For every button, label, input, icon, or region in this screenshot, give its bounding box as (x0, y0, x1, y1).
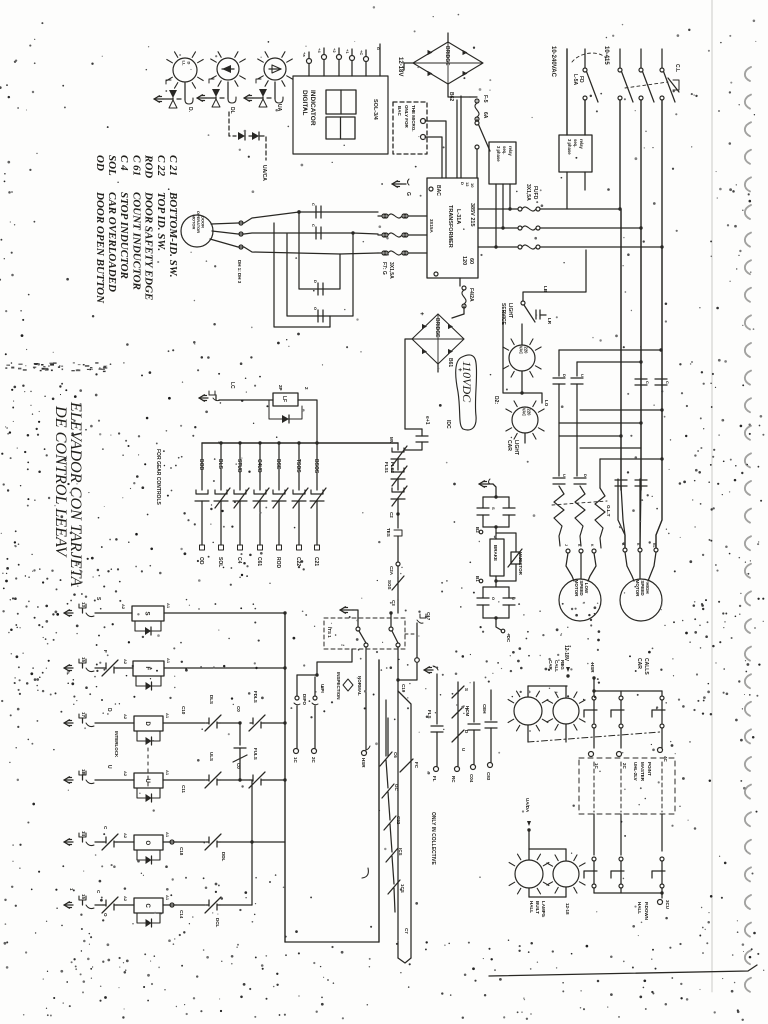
phase relay B wires (566, 172, 568, 209)
interlock dashes (147, 748, 149, 786)
door operator motor (181, 215, 213, 247)
svg-text:S: S (464, 688, 469, 691)
svg-text:O: O (491, 597, 496, 600)
svg-text:HCM: HCM (465, 706, 470, 716)
svg-text:C04: C04 (469, 774, 474, 783)
wires above transformer (456, 100, 458, 178)
svg-text:1B: 1B (81, 769, 86, 776)
svg-text:DOOR OPEN BUTTON: DOOR OPEN BUTTON (94, 191, 106, 304)
svg-text:FOR GEAR CONTROLS: FOR GEAR CONTROLS (155, 449, 161, 505)
svg-text:B61: B61 (447, 358, 453, 367)
HSR wire (593, 678, 595, 691)
rung3-4 link cap (239, 723, 241, 745)
right tall vertical (378, 660, 380, 942)
svg-text:3 phase: 3 phase (567, 139, 572, 155)
svg-text:SOL: SOL (217, 557, 223, 567)
brake top caps (477, 507, 489, 509)
svg-text:F: F (144, 667, 150, 671)
svg-text:385V 215: 385V 215 (469, 203, 475, 227)
brake bottom caps (477, 597, 489, 599)
svg-text:e+1: e+1 (424, 416, 430, 425)
svg-text:HALL: HALL (529, 901, 534, 913)
rung1 coil S (95, 612, 132, 614)
svg-text:LAMPS: LAMPS (541, 901, 546, 917)
svg-text:C6: C6 (393, 752, 398, 758)
svg-text:BSOS: BSOS (313, 459, 319, 474)
svg-text:L-5A: L-5A (572, 74, 578, 86)
master point verticals (593, 762, 595, 812)
phase sequence relay B box (559, 135, 592, 172)
hall row2 bottom bus (594, 892, 662, 894)
svg-text:120: 120 (461, 256, 467, 265)
svg-text:D: D (106, 708, 112, 712)
svg-text:MOTOR: MOTOR (574, 580, 579, 597)
svg-text:BAC: BAC (397, 106, 402, 116)
long vertical R3 (661, 247, 663, 459)
svg-text:C22: C22 (396, 816, 401, 825)
svg-text:DSE: DSE (275, 459, 281, 470)
left vertical bus (284, 613, 286, 942)
svg-text:HSR: HSR (590, 663, 595, 673)
car lamp bottom wires (527, 725, 529, 742)
high speed motor (620, 579, 662, 621)
master point dashed box (579, 758, 675, 814)
dashed wire lamp aux (229, 112, 236, 136)
svg-text:C7: C7 (404, 928, 409, 934)
rung5 diode (137, 850, 160, 860)
rung2 diode (136, 676, 161, 686)
service light switch (521, 301, 525, 305)
cap jog top2 (577, 361, 641, 363)
ground G at transformer (392, 183, 401, 185)
cap row1 to row2 wires (558, 384, 560, 476)
ITS switch 1 (356, 627, 360, 631)
svg-text:C 21: C 21 (167, 155, 179, 176)
car call buttons row1 (593, 691, 595, 696)
svg-text:S: S (144, 612, 150, 616)
relay A drop wires (495, 184, 497, 247)
svg-text:BAC: BAC (435, 185, 441, 196)
svg-text:C: C (665, 381, 670, 384)
bridge rectifier B62 (413, 42, 483, 84)
car call pigtails 1C 2C 4C (589, 752, 594, 757)
3-phase wire W (478, 246, 518, 248)
FLS col2 (457, 682, 459, 766)
svg-text:relay: relay (508, 146, 513, 156)
svg-text:INDICATOR: INDICATOR (309, 90, 316, 126)
svg-text:MV: MV (389, 437, 394, 444)
svg-text:CAR: CAR (506, 440, 512, 451)
svg-text:DOOR SAFETY EDGE: DOOR SAFETY EDGE (143, 191, 155, 300)
svg-text:U: U (511, 597, 516, 600)
svg-text:TRANSFORMER: TRANSFORMER (447, 205, 453, 248)
svg-text:1C: 1C (293, 757, 298, 764)
svg-text:C2A: C2A (389, 566, 394, 576)
svg-text:13: 13 (81, 602, 86, 608)
terminal +DC (496, 618, 501, 630)
svg-text:F: F (103, 650, 108, 653)
svg-text:ULS: ULS (209, 752, 214, 761)
svg-text:2C: 2C (311, 757, 316, 764)
svg-text:C4: C4 (236, 557, 242, 564)
rung6 diode (137, 913, 160, 923)
svg-text:LC: LC (229, 382, 235, 389)
main switch FD (584, 49, 586, 68)
dark scan streak left (18, 368, 21, 370)
rung5 contact C (103, 841, 106, 843)
service lamp 220VAC (509, 345, 535, 371)
spiral binding holes column (745, 67, 751, 81)
svg-text:3 phase: 3 phase (496, 146, 501, 162)
svg-text:U: U (580, 374, 585, 377)
svg-text:BUILT: BUILT (535, 901, 540, 914)
contact drops DOB..BSOS (201, 443, 203, 490)
svg-text:10-240VAC: 10-240VAC (550, 46, 556, 78)
svg-text:D.: D. (187, 107, 193, 113)
svg-text:F7: G: F7: G (381, 262, 387, 275)
svg-text:G: G (405, 192, 411, 196)
svg-text:FULS: FULS (253, 748, 258, 760)
wire LF to bus (298, 400, 317, 443)
svg-text:A2: A2 (121, 604, 126, 610)
FLS col4 (490, 690, 492, 720)
motor loop caps (317, 283, 319, 295)
svg-text:L-31A: L-31A (455, 209, 461, 224)
svg-text:12: 12 (465, 182, 470, 187)
svg-text:P.DOWN: P.DOWN (644, 902, 649, 920)
triac/ground for lamp DLL (184, 83, 186, 100)
main switch T (661, 49, 663, 68)
svg-text:4C: 4C (663, 756, 668, 763)
svg-text:VARISTOR: VARISTOR (518, 552, 523, 576)
lamp UA with right arrow (264, 58, 286, 80)
svg-text:DL: DL (229, 107, 235, 114)
svg-text:NORMAL: NORMAL (357, 676, 362, 696)
svg-text:BRAKE: BRAKE (493, 545, 498, 561)
motor loop 3 (274, 223, 330, 327)
svg-text:CEH: CEH (482, 704, 487, 714)
motor wire row 3 (210, 239, 378, 254)
terminal B1 (479, 579, 483, 583)
rung2 wire to bus (164, 667, 285, 669)
bottom page edge line (489, 965, 757, 976)
motor2 wires from caps (621, 486, 625, 548)
svg-text:FLS2: FLS2 (390, 462, 395, 473)
svg-text:10-415: 10-415 (603, 46, 609, 65)
svg-text:A1: A1 (165, 770, 170, 776)
svg-text:17: 17 (81, 712, 86, 718)
svg-text:2C: 2C (622, 763, 627, 770)
svg-text:UA/CA: UA/CA (261, 165, 267, 181)
car call lamps (514, 697, 542, 725)
svg-text:B1: B1 (475, 576, 480, 582)
svg-text:1C: 1C (594, 763, 599, 770)
svg-text:3X15A: 3X15A (429, 219, 434, 234)
transformer corner terminals (429, 187, 433, 191)
svg-text:A2: A2 (123, 714, 128, 720)
svg-text:12-18: 12-18 (565, 903, 570, 915)
svg-text:VAC: VAC (522, 408, 527, 417)
svg-text:VAC: VAC (519, 346, 524, 355)
scan speckle noise (248, 156, 250, 158)
C3 junction (389, 611, 392, 614)
svg-text:CAR: CAR (636, 658, 642, 669)
svg-text:C83: C83 (486, 772, 491, 781)
UIPI DIPO switches (297, 674, 317, 676)
rung1 wire to bus (164, 612, 285, 614)
svg-text:HSR: HSR (361, 758, 366, 768)
svg-text:C0: C0 (236, 763, 241, 769)
svg-text:12-18V: 12-18V (397, 57, 403, 76)
svg-text:D: D (144, 722, 150, 727)
digital indicator box (293, 76, 388, 154)
seven-segment digit 2 (326, 117, 355, 139)
svg-text:3X1,5A: 3X1,5A (388, 262, 394, 279)
motor loop 2 (287, 233, 353, 316)
svg-text:HALL: HALL (637, 902, 642, 914)
cap at e+1 (416, 435, 428, 437)
svg-text:U: U (144, 779, 150, 783)
dashed collective link (528, 732, 660, 742)
rung5-6 join (251, 780, 253, 905)
tall line a (398, 691, 411, 958)
svg-text:U: U (461, 748, 466, 751)
main switch S (640, 49, 642, 68)
brake wire mid (495, 527, 497, 539)
svg-text:A2: A2 (123, 833, 128, 839)
svg-text:seq.: seq. (573, 139, 578, 147)
svg-text:+2: +2 (332, 48, 337, 53)
dashed box ONLY FOR THE MICRO (393, 102, 427, 154)
car call bus (594, 690, 662, 692)
svg-text:O: O (144, 841, 150, 846)
3-phase wire U (478, 208, 518, 210)
svg-text:ITS 1: ITS 1 (327, 627, 332, 638)
svg-text:FDLS: FDLS (253, 691, 258, 703)
triac/ground for lamp DL (227, 82, 229, 99)
seven-segment digit 1 (326, 90, 356, 114)
svg-text:ONLY IN COLLECTIVE: ONLY IN COLLECTIVE (430, 812, 436, 865)
svg-text:seq.: seq. (502, 146, 507, 154)
rung6 contact O (103, 904, 106, 906)
svg-text:UA/DA: UA/DA (525, 798, 530, 813)
rung3 coil D (95, 722, 134, 724)
svg-text:LR: LR (547, 318, 552, 325)
svg-text:C.L: C.L (674, 64, 680, 72)
svg-text:C4UD: C4UD (256, 459, 262, 473)
svg-text:A2: A2 (123, 771, 128, 777)
rung3 diode (137, 731, 160, 741)
rung4 diode (137, 788, 160, 798)
svg-text:FC: FC (414, 762, 419, 769)
svg-text:C2: C2 (389, 512, 394, 518)
bus to MV column (397, 443, 399, 450)
svg-text:C 22: C 22 (155, 155, 167, 177)
svg-text:C21: C21 (313, 557, 319, 566)
main control bus (202, 442, 398, 444)
FLS col3 (473, 682, 475, 722)
rung4 C11 ULS (163, 779, 205, 781)
svg-text:DLS: DLS (217, 459, 223, 470)
svg-text:O: O (103, 913, 108, 917)
svg-text:6A: 6A (482, 112, 488, 119)
svg-text:+: + (418, 312, 424, 316)
long vertical R2 (640, 228, 642, 490)
svg-text:C22: C22 (295, 557, 301, 566)
relay LF 2P (273, 393, 298, 406)
triac/ground for lamp UA (274, 82, 276, 99)
svg-text:C: C (311, 203, 316, 206)
rung5 coil D (95, 841, 103, 843)
svg-text:DOB: DOB (198, 459, 204, 471)
svg-text:CAR OVERLOADED: CAR OVERLOADED (106, 192, 118, 292)
rung6 coil C (95, 904, 103, 906)
car call buttons row1 bottom (592, 724, 596, 728)
svg-text:C: C (144, 904, 150, 909)
fuse bank 3X15A (382, 214, 386, 218)
svg-text:STOP INDUCTOR: STOP INDUCTOR (118, 192, 130, 279)
inspection diamond (343, 679, 353, 691)
svg-text:A1: A1 (165, 895, 170, 901)
svg-text:D: D (460, 182, 465, 185)
indicator wire G (379, 44, 381, 76)
svg-text:D2:: D2: (493, 396, 499, 404)
svg-text:+4: +4 (317, 48, 322, 53)
svg-text:MOTOR: MOTOR (191, 215, 196, 230)
svg-text:CALL: CALL (554, 660, 559, 672)
svg-text:DDL: DDL (221, 852, 226, 861)
dashed switch linkage (625, 82, 668, 88)
handwritten 110VDC oval (456, 355, 477, 430)
svg-text:RC: RC (451, 776, 456, 783)
svg-text:15: 15 (81, 894, 86, 900)
brake block ground (479, 483, 488, 485)
low speed motor (559, 579, 601, 621)
svg-text:A2: A2 (123, 659, 128, 665)
svg-text:BRIDGE: BRIDGE (434, 318, 440, 338)
svg-text:C 4: C 4 (118, 155, 130, 171)
svg-text:14: 14 (81, 831, 86, 837)
svg-text:DH 1: DH 3: DH 1: DH 3 (237, 260, 242, 284)
svg-text:LIGHT: LIGHT (507, 303, 513, 318)
micro wires to transformer (425, 121, 446, 178)
svg-text:TOP ID. SW.: TOP ID. SW. (155, 192, 167, 251)
rung5 pushbutton (64, 841, 73, 843)
svg-text:A1: A1 (166, 658, 171, 664)
brake coil box (490, 539, 504, 576)
rung6 pushbutton (64, 904, 73, 906)
svg-text:SOL-3/4: SOL-3/4 (372, 99, 378, 121)
LF diode loop (269, 400, 302, 419)
svg-text:C19: C19 (401, 684, 406, 693)
rung6 C14 DCL (163, 904, 176, 906)
switch below F-5 (476, 119, 478, 121)
capacitor DH row1 (315, 206, 317, 218)
rung3 C10 DLS (163, 722, 205, 724)
rung4 pushbutton (64, 779, 73, 781)
svg-text:+DC: +DC (506, 633, 511, 643)
dashed wire to UA/CA (260, 136, 266, 160)
svg-text:+1: +1 (345, 49, 350, 54)
svg-text:U: U (106, 765, 112, 769)
svg-text:DIGITAL: DIGITAL (301, 90, 308, 116)
motor wire row 2 (212, 231, 378, 234)
svg-text:FL: FL (432, 776, 437, 782)
svg-text:F-5: F-5 (482, 95, 488, 103)
service lamp wires (521, 324, 523, 345)
hall lamp bottoms (528, 888, 530, 897)
phase sequence relay A box (489, 142, 516, 184)
svg-text:15: 15 (81, 657, 86, 663)
car light lamp 220VAC (512, 407, 538, 433)
svg-text:C61: C61 (256, 557, 262, 566)
pigtail 3CU (661, 893, 663, 898)
motor2 wires from caps (618, 479, 625, 548)
handwritten J mark (362, 868, 368, 878)
svg-text:IDC: IDC (445, 420, 451, 429)
motor2 terminals (623, 548, 627, 552)
ITS1 dashed box (324, 618, 405, 649)
LC contact (199, 397, 208, 399)
indicator top terminals (307, 59, 312, 64)
svg-text:LO: LO (544, 400, 549, 407)
svg-text:A1: A1 (165, 713, 170, 719)
svg-text:STUD: STUD (236, 459, 242, 473)
svg-text:G: G (376, 47, 381, 50)
service light top wire (523, 250, 586, 301)
svg-text:D: D (583, 474, 588, 477)
svg-text:THE MICRO.: THE MICRO. (411, 105, 416, 132)
svg-text:LB: LB (543, 286, 548, 293)
svg-text:A2: A2 (123, 896, 128, 902)
svg-text:LL: LL (182, 61, 187, 66)
svg-text:S: S (491, 507, 496, 510)
svg-text:ROD: ROD (143, 154, 155, 178)
rung2 coil (95, 667, 103, 669)
ITS ground (340, 609, 349, 611)
long vertical R1 (620, 209, 622, 490)
rung4 coil U (95, 779, 134, 781)
svg-text:ROD: ROD (275, 557, 281, 569)
svg-text:D: D (562, 374, 567, 377)
svg-text:A1: A1 (166, 603, 171, 609)
svg-text:LIGHT: LIGHT (513, 440, 519, 455)
motor wire row 1 (211, 212, 378, 224)
svg-text:C 61: C 61 (130, 155, 142, 176)
svg-text:MASTER: MASTER (640, 762, 645, 782)
cap jog top1 (559, 349, 661, 351)
svg-text:60: 60 (468, 258, 474, 264)
svg-text:O.L.T: O.L.T (606, 505, 611, 517)
lamp DLL (door lamp) with rays (173, 58, 197, 82)
dashed linkage arc (572, 53, 606, 62)
bus bottom wire (285, 941, 379, 943)
svg-text:UIPI: UIPI (320, 684, 325, 693)
mid horizontal jogs (580, 409, 662, 411)
svg-text:OD: OD (94, 155, 106, 171)
svg-text:CALLS: CALLS (643, 658, 649, 675)
chain C6 (387, 718, 389, 756)
rung1 pushbutton (64, 612, 73, 614)
rung2 pushbutton (64, 667, 73, 669)
rung3 pushbutton (64, 722, 73, 724)
svg-text:ONLY FOR: ONLY FOR (404, 105, 409, 129)
FLS col1 (436, 674, 438, 724)
C17 branch (420, 614, 426, 618)
rung5 C18 DDL (163, 841, 176, 843)
dashed stub right of ITS (405, 633, 417, 635)
svg-text:1CS: 1CS (400, 884, 405, 893)
